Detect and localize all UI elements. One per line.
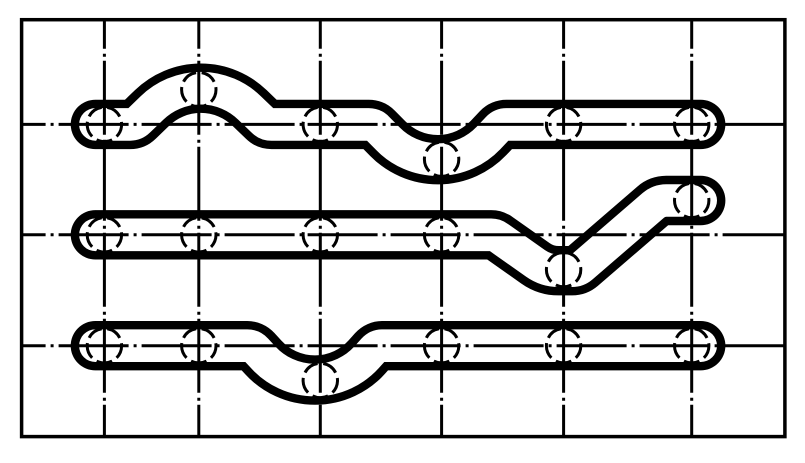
hole centre mark circle row3 col6 (675, 329, 709, 363)
slot channel row 3 outer (95, 346, 700, 380)
hole centre mark circle row2 col5 (546, 252, 580, 286)
vertical centerline column 3 (319, 20, 322, 437)
hole centre mark circle row1 col1 (87, 107, 121, 141)
hole centre mark circle row3 col5 (546, 329, 580, 363)
hole centre mark circle row3 col1 (87, 329, 121, 363)
hole centre mark circle row2 col6 (675, 183, 709, 217)
hole centre mark circle row3 col2 (182, 329, 216, 363)
vertical centerline column 6 (690, 20, 693, 437)
horizontal centerline row 3 (22, 344, 785, 347)
hole centre mark circle row1 col4 (424, 142, 458, 176)
slot channel row 2 outer (95, 201, 700, 271)
hole centre mark circle row1 col3 (303, 107, 337, 141)
vertical centerline column 4 (440, 20, 443, 437)
slot channel row 1 outer (95, 88, 700, 159)
hole centre mark circle row2 col2 (182, 218, 216, 252)
slot channel row 3 inner (95, 346, 700, 380)
slot channel row 1 inner (95, 88, 700, 159)
hole centre mark circle row1 col6 (675, 107, 709, 141)
vertical centerline column 1 (103, 20, 106, 437)
hole centre mark circle row2 col3 (303, 218, 337, 252)
hole centre mark circle row3 col3 (303, 363, 337, 397)
vertical centerline column 5 (562, 20, 565, 437)
hole centre mark circle row1 col2 (182, 72, 216, 106)
hole centre mark circle row2 col1 (87, 218, 121, 252)
vertical centerline column 2 (197, 20, 200, 437)
horizontal centerline row 1 (22, 123, 785, 126)
hole centre mark circle row3 col4 (424, 329, 458, 363)
slot channel row 2 inner (95, 201, 700, 271)
hole centre mark circle row2 col4 (424, 218, 458, 252)
horizontal centerline row 2 (22, 233, 785, 236)
hole centre mark circle row1 col5 (546, 107, 580, 141)
